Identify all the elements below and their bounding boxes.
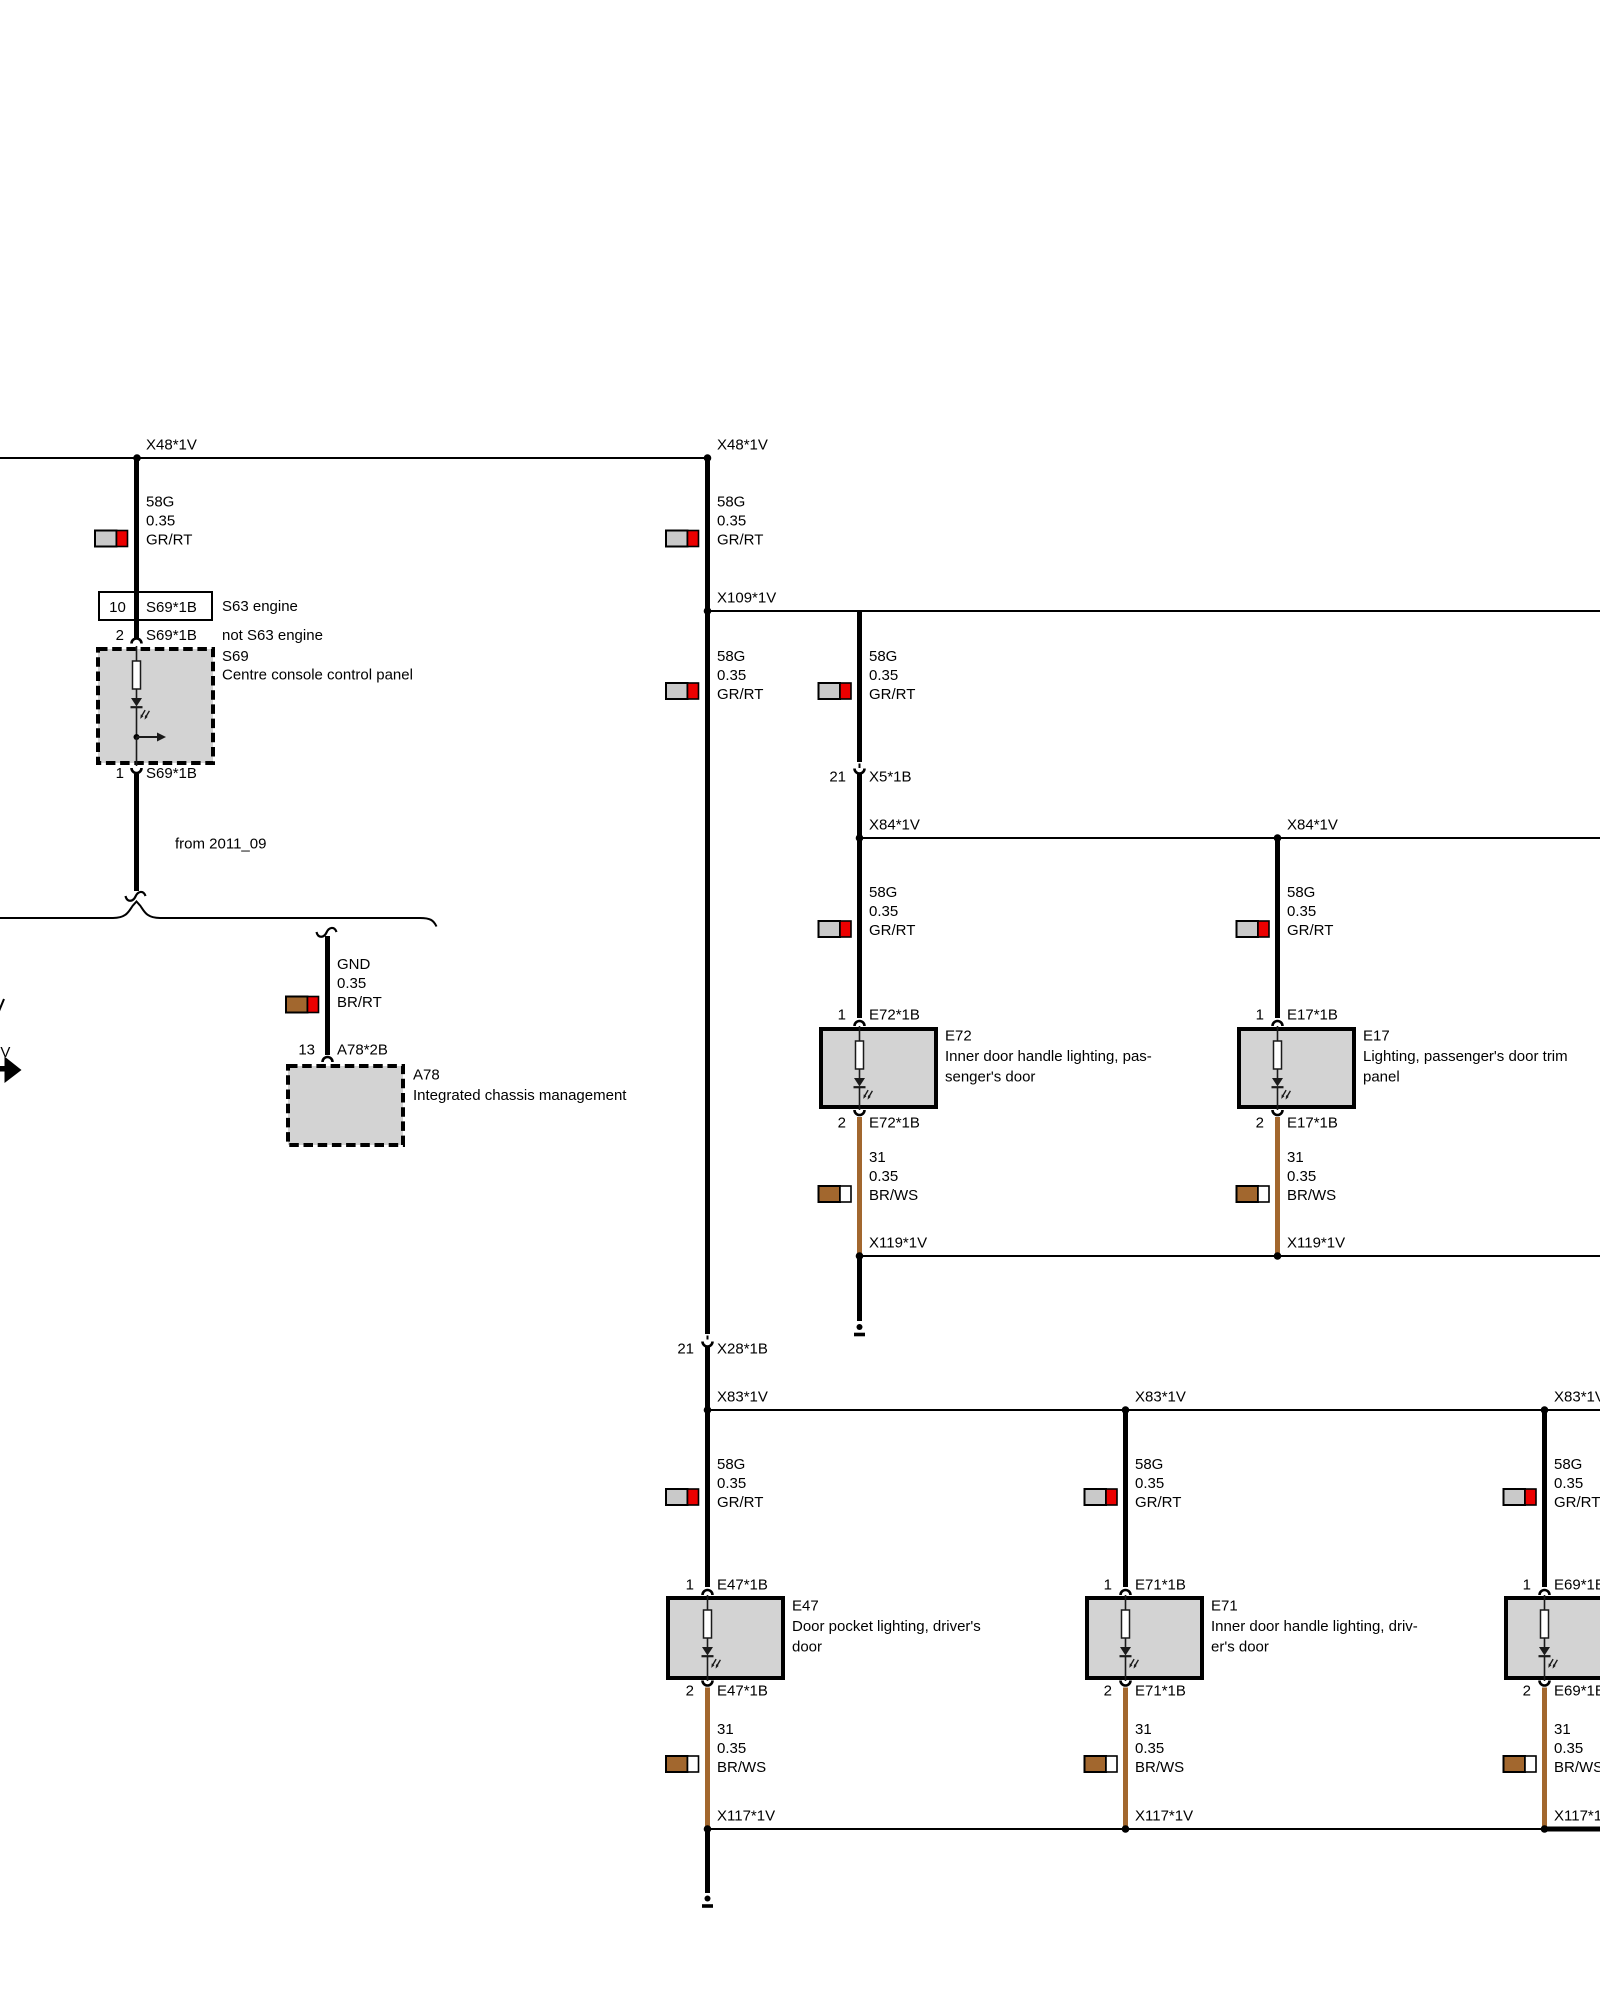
svg-text:Inner door handle lighting, dr: Inner door handle lighting, driv- xyxy=(1211,1618,1418,1635)
wire X119*1V bus xyxy=(860,1255,1600,1257)
pin 1 E69*1B label xyxy=(1523,1577,1600,1594)
wire label 31 0.35 BR/WS (E71) xyxy=(1135,1721,1184,1776)
pin 2 connector cup at E17 xyxy=(1273,1110,1283,1115)
lamp E47 box xyxy=(668,1598,783,1678)
pin 21 X28*1B label xyxy=(677,1341,768,1358)
svg-text:not S63 engine: not S63 engine xyxy=(222,627,323,644)
wire 58G GR/RT E17 branch xyxy=(1275,838,1280,1018)
wire label 58G 0.35 GR/RT (main bus) xyxy=(717,494,763,549)
svg-text:X117*1V: X117*1V xyxy=(1135,1808,1193,1825)
wire label 58G 0.35 GR/RT (E17 branch) xyxy=(1287,884,1333,939)
node X83*1V label (right) xyxy=(1554,1389,1600,1406)
colour swatch GR/RT (E17 branch) xyxy=(1237,921,1270,937)
wire 31 BR/WS from E69 xyxy=(1542,1688,1547,1828)
node X119*1V label (left) xyxy=(869,1235,927,1252)
svg-text:BR/WS: BR/WS xyxy=(1287,1187,1336,1204)
label not S63 engine xyxy=(222,627,323,644)
wire 58G GR/RT E71 branch xyxy=(1123,1410,1128,1587)
wire S69 pin1 down xyxy=(134,774,139,891)
wire stub below X117 xyxy=(705,1829,710,1893)
pin 1 S69*1B label xyxy=(116,765,197,782)
node X83*1V label (left) xyxy=(717,1389,768,1406)
svg-text:E47: E47 xyxy=(792,1598,819,1615)
label from 2011_09 xyxy=(175,836,266,853)
pin 2 S69*1B label xyxy=(116,627,197,644)
pin 1 E17*1B label xyxy=(1256,1007,1338,1024)
wire X84*1V bus xyxy=(860,837,1600,839)
svg-text:0.35: 0.35 xyxy=(869,1168,898,1185)
node X48*1V junction (left) xyxy=(133,454,141,462)
wire label 58G 0.35 GR/RT (E69 branch) xyxy=(1554,1456,1600,1511)
svg-text:2: 2 xyxy=(1256,1115,1264,1132)
svg-text:0.35: 0.35 xyxy=(717,1475,746,1492)
svg-text:GR/RT: GR/RT xyxy=(717,686,763,703)
colour swatch GR/RT (E47 branch) xyxy=(666,1489,699,1505)
node X119*1V junction (left) xyxy=(856,1252,864,1260)
pin 2 connector cup at E47 xyxy=(703,1681,713,1686)
svg-text:GR/RT: GR/RT xyxy=(1554,1494,1600,1511)
svg-text:31: 31 xyxy=(869,1149,886,1166)
wire label 31 0.35 BR/WS (E72) xyxy=(869,1149,918,1204)
wire label 31 0.35 BR/WS (E47) xyxy=(717,1721,766,1776)
lamp E69 box xyxy=(1506,1598,1600,1678)
pin 1 E71*1B label xyxy=(1104,1577,1186,1594)
svg-text:2: 2 xyxy=(838,1115,846,1132)
svg-text:E47*1B: E47*1B xyxy=(717,1683,768,1700)
svg-text:1: 1 xyxy=(838,1007,846,1024)
label A78 Integrated chassis management xyxy=(413,1067,627,1105)
control unit S69 box (dashed) xyxy=(98,649,213,763)
resistor and LED inside E72 xyxy=(854,1026,873,1110)
node junction inside S69 xyxy=(134,734,140,740)
svg-text:X83*1V: X83*1V xyxy=(1135,1389,1186,1406)
label S63 engine xyxy=(222,598,298,615)
clipped label 1V (left edge) xyxy=(0,1044,10,1061)
svg-text:10: 10 xyxy=(109,599,126,616)
svg-text:BR/WS: BR/WS xyxy=(1135,1759,1184,1776)
svg-text:Door pocket lighting, driver's: Door pocket lighting, driver's xyxy=(792,1618,981,1635)
svg-text:58G: 58G xyxy=(1554,1456,1582,1473)
node X117*1V label (right) xyxy=(1554,1808,1600,1825)
pin 1 E72*1B label xyxy=(838,1007,920,1024)
svg-text:1: 1 xyxy=(1523,1577,1531,1594)
node X117*1V label (middle) xyxy=(1135,1808,1193,1825)
svg-text:Integrated chassis management: Integrated chassis management xyxy=(413,1087,627,1104)
wire stub below X119 xyxy=(857,1256,862,1321)
svg-text:X109*1V: X109*1V xyxy=(717,590,776,607)
node X83*1V junction (middle) xyxy=(1122,1406,1130,1414)
svg-text:S69*1B: S69*1B xyxy=(146,765,197,782)
svg-text:0.35: 0.35 xyxy=(1287,1168,1316,1185)
pin 2 E72*1B label xyxy=(838,1115,920,1132)
svg-text:E71*1B: E71*1B xyxy=(1135,1577,1186,1594)
wire 58G GR/RT E69 branch xyxy=(1542,1410,1547,1587)
svg-text:2: 2 xyxy=(116,627,124,644)
off-page arrow (left edge) xyxy=(0,1057,22,1084)
pin 1 connector cap at E17 xyxy=(1273,1021,1283,1026)
svg-text:panel: panel xyxy=(1363,1069,1400,1086)
svg-text:X48*1V: X48*1V xyxy=(717,437,768,454)
svg-text:E72*1B: E72*1B xyxy=(869,1007,920,1024)
svg-text:0.35: 0.35 xyxy=(1554,1740,1583,1757)
svg-text:S69: S69 xyxy=(222,648,249,665)
svg-text:58G: 58G xyxy=(1287,884,1315,901)
node X48*1V label (right) xyxy=(717,437,768,454)
svg-text:GR/RT: GR/RT xyxy=(717,532,763,549)
wire label 31 0.35 BR/WS (E69) xyxy=(1554,1721,1600,1776)
pin 2 connector cup at E71 xyxy=(1121,1681,1131,1686)
pin 21 connector cup X5*1B xyxy=(855,769,865,774)
lamp E72 box xyxy=(821,1029,936,1107)
lamp E71 box xyxy=(1087,1598,1202,1678)
connector box 10 S69*1B (S63 engine variant) xyxy=(99,592,212,620)
svg-text:GR/RT: GR/RT xyxy=(717,1494,763,1511)
svg-text:0.35: 0.35 xyxy=(717,667,746,684)
wire label 58G 0.35 GR/RT (below X109 left) xyxy=(717,648,763,703)
connector 21 X28*1B break xyxy=(707,1336,709,1340)
colour swatch GR/RT (E69 branch) xyxy=(1504,1489,1537,1505)
wire 31 BR/WS from E71 xyxy=(1123,1688,1128,1828)
colour swatch GR/RT (X109 branch) xyxy=(819,683,852,699)
clipped label fragment (left edge) xyxy=(0,999,4,1011)
control unit A78 box (dashed) xyxy=(288,1066,403,1145)
svg-text:0.35: 0.35 xyxy=(717,513,746,530)
connector 21 X5*1B break xyxy=(859,764,861,769)
pin 1 connector cup at S69 xyxy=(132,768,142,773)
pin 2 connector cup at E69 xyxy=(1540,1681,1550,1686)
colour swatch GR/RT (main bus) xyxy=(666,531,699,547)
wire X109*1V bus xyxy=(707,610,1600,612)
svg-text:1: 1 xyxy=(1256,1007,1264,1024)
svg-text:1: 1 xyxy=(116,765,124,782)
svg-text:GR/RT: GR/RT xyxy=(869,922,915,939)
wire label 31 0.35 BR/WS (E17) xyxy=(1287,1149,1336,1204)
colour swatch GR/RT (S69 branch) xyxy=(95,531,128,547)
svg-text:X28*1B: X28*1B xyxy=(717,1341,768,1358)
svg-text:X5*1B: X5*1B xyxy=(869,769,912,786)
svg-text:E72*1B: E72*1B xyxy=(869,1115,920,1132)
node X117*1V junction (right) xyxy=(1541,1825,1549,1833)
wire break squiggle above GND wire xyxy=(317,928,337,937)
node X83*1V junction (right) xyxy=(1541,1406,1549,1414)
node X109*1V label (left) xyxy=(717,590,776,607)
svg-text:E47*1B: E47*1B xyxy=(717,1577,768,1594)
svg-text:1: 1 xyxy=(686,1577,694,1594)
svg-text:E72: E72 xyxy=(945,1028,972,1045)
colour swatch GR/RT (E72 branch) xyxy=(819,921,852,937)
svg-text:0.35: 0.35 xyxy=(717,1740,746,1757)
svg-text:0.35: 0.35 xyxy=(869,667,898,684)
wire X48*1V bus xyxy=(0,457,708,459)
resistor and LED inside E17 xyxy=(1272,1026,1291,1110)
svg-text:GR/RT: GR/RT xyxy=(1287,922,1333,939)
svg-text:X84*1V: X84*1V xyxy=(869,817,920,834)
node X84*1V junction (left) xyxy=(856,834,864,842)
signal arrow inside S69 xyxy=(137,733,167,767)
svg-text:58G: 58G xyxy=(717,494,745,511)
svg-text:2: 2 xyxy=(1104,1683,1112,1700)
cable harness brace xyxy=(0,902,437,927)
svg-text:X117*1V: X117*1V xyxy=(717,1808,775,1825)
node X48*1V junction (right) xyxy=(704,454,712,462)
label S69 Centre console control panel xyxy=(222,648,413,684)
colour swatch BR/WS (E72) xyxy=(819,1186,852,1202)
svg-text:21: 21 xyxy=(677,1341,694,1358)
wire end terminal below X119 xyxy=(854,1324,865,1335)
pin 2 connector cup at E72 xyxy=(855,1110,865,1115)
wire label 58G 0.35 GR/RT (E72 branch) xyxy=(869,884,915,939)
svg-text:E17: E17 xyxy=(1363,1028,1390,1045)
wire break squiggle below S69 xyxy=(126,892,146,901)
svg-text:31: 31 xyxy=(1287,1149,1304,1166)
svg-text:X119*1V: X119*1V xyxy=(869,1235,927,1252)
svg-text:X117*1V: X117*1V xyxy=(1554,1808,1600,1825)
wire label GND 0.35 BR/RT xyxy=(337,956,382,1011)
svg-text:BR/WS: BR/WS xyxy=(717,1759,766,1776)
wire 31 BR/WS from E17 xyxy=(1275,1117,1280,1254)
label E72 Inner door handle lighting passenger's door xyxy=(945,1028,1152,1086)
svg-text:0.35: 0.35 xyxy=(337,975,366,992)
svg-text:S69*1B: S69*1B xyxy=(146,599,197,616)
svg-text:2: 2 xyxy=(686,1683,694,1700)
svg-text:31: 31 xyxy=(1135,1721,1152,1738)
label E71 Inner door handle lighting driver's door xyxy=(1211,1598,1418,1656)
svg-text:58G: 58G xyxy=(869,884,897,901)
wire label 58G 0.35 GR/RT (X109 branch) xyxy=(869,648,915,703)
pin 1 E47*1B label xyxy=(686,1577,768,1594)
node X84*1V label (left) xyxy=(869,817,920,834)
svg-text:X84*1V: X84*1V xyxy=(1287,817,1338,834)
svg-text:31: 31 xyxy=(1554,1721,1571,1738)
wire 31 BR/WS from E72 xyxy=(857,1117,862,1254)
pin 13 connector cap at A78 xyxy=(323,1057,333,1062)
wire end terminal below X117 xyxy=(702,1896,713,1907)
wire label 58G 0.35 GR/RT (S69 branch) xyxy=(146,494,192,549)
colour swatch GR/RT (below X109 left) xyxy=(666,683,699,699)
pin 1 connector cap at E72 xyxy=(855,1021,865,1026)
wire below X5 connector xyxy=(857,774,862,1018)
pin 21 connector cup X28*1B xyxy=(703,1342,713,1347)
colour swatch BR/RT xyxy=(286,997,319,1013)
svg-text:Centre console control panel: Centre console control panel xyxy=(222,667,413,684)
wire 58G GR/RT to S69 xyxy=(134,458,139,639)
svg-text:GR/RT: GR/RT xyxy=(1135,1494,1181,1511)
svg-text:er's door: er's door xyxy=(1211,1639,1269,1656)
svg-text:X48*1V: X48*1V xyxy=(146,437,197,454)
svg-text:A78*2B: A78*2B xyxy=(337,1042,388,1059)
svg-text:31: 31 xyxy=(717,1721,734,1738)
node X117*1V junction (left) xyxy=(704,1825,712,1833)
wire X83*1V bus xyxy=(707,1409,1600,1411)
svg-text:Lighting, passenger's door tri: Lighting, passenger's door trim xyxy=(1363,1048,1568,1065)
svg-text:X83*1V: X83*1V xyxy=(717,1389,768,1406)
svg-text:BR/WS: BR/WS xyxy=(869,1187,918,1204)
wire below X28 connector xyxy=(705,1347,710,1587)
svg-text:E17*1B: E17*1B xyxy=(1287,1115,1338,1132)
node X84*1V junction (right) xyxy=(1274,834,1282,842)
svg-text:0.35: 0.35 xyxy=(1554,1475,1583,1492)
wire label 58G 0.35 GR/RT (E47 branch) xyxy=(717,1456,763,1511)
pin 1 connector cap at E71 xyxy=(1121,1590,1131,1595)
label E47 Door pocket lighting driver's door xyxy=(792,1598,981,1656)
svg-text:senger's door: senger's door xyxy=(945,1069,1035,1086)
node X119*1V label (right) xyxy=(1287,1235,1345,1252)
pin 21 X5*1B label xyxy=(829,769,911,786)
node X119*1V junction (right) xyxy=(1274,1252,1282,1260)
svg-text:X83*1V: X83*1V xyxy=(1554,1389,1600,1406)
svg-text:58G: 58G xyxy=(717,648,745,665)
svg-text:0.35: 0.35 xyxy=(146,513,175,530)
pin 1 connector cap at E69 xyxy=(1540,1590,1550,1595)
pin 2 E17*1B label xyxy=(1256,1115,1338,1132)
node X48*1V label (left) xyxy=(146,437,197,454)
svg-text:0.35: 0.35 xyxy=(1287,903,1316,920)
node X117*1V label (left) xyxy=(717,1808,775,1825)
pin 2 E47*1B label xyxy=(686,1683,768,1700)
wire label 58G 0.35 GR/RT (E71 branch) xyxy=(1135,1456,1181,1511)
colour swatch GR/RT (E71 branch) xyxy=(1085,1489,1118,1505)
svg-text:GND: GND xyxy=(337,956,371,973)
svg-text:58G: 58G xyxy=(717,1456,745,1473)
svg-text:Inner door handle lighting, pa: Inner door handle lighting, pas- xyxy=(945,1048,1152,1065)
lamp E17 box xyxy=(1239,1029,1354,1107)
pin 2 E71*1B label xyxy=(1104,1683,1186,1700)
node X109*1V junction (left) xyxy=(704,607,712,615)
svg-text:E71*1B: E71*1B xyxy=(1135,1683,1186,1700)
node X117*1V junction (middle) xyxy=(1122,1825,1130,1833)
svg-text:S63 engine: S63 engine xyxy=(222,598,298,615)
colour swatch BR/WS (E47) xyxy=(666,1756,699,1772)
wire GND BR/RT xyxy=(325,936,330,1055)
svg-text:S69*1B: S69*1B xyxy=(146,627,197,644)
svg-text:1: 1 xyxy=(1104,1577,1112,1594)
svg-text:0.35: 0.35 xyxy=(869,903,898,920)
svg-text:58G: 58G xyxy=(869,648,897,665)
svg-text:BR/WS: BR/WS xyxy=(1554,1759,1600,1776)
svg-text:21: 21 xyxy=(829,769,846,786)
colour swatch BR/WS (E69) xyxy=(1504,1756,1537,1772)
resistor and LED inside E47 xyxy=(702,1595,721,1681)
svg-text:0.35: 0.35 xyxy=(1135,1740,1164,1757)
svg-text:58G: 58G xyxy=(146,494,174,511)
svg-text:door: door xyxy=(792,1639,822,1656)
svg-text:GR/RT: GR/RT xyxy=(146,532,192,549)
pin 1 connector cap at E47 xyxy=(703,1590,713,1595)
svg-text:58G: 58G xyxy=(1135,1456,1163,1473)
resistor and LED inside E69 xyxy=(1539,1595,1558,1681)
pin 2 E69*1B label xyxy=(1523,1683,1600,1700)
svg-text:A78: A78 xyxy=(413,1067,440,1084)
svg-text:GR/RT: GR/RT xyxy=(869,686,915,703)
svg-text:2: 2 xyxy=(1523,1683,1531,1700)
colour swatch BR/WS (E17) xyxy=(1237,1186,1270,1202)
resistor and LED inside S69 xyxy=(131,646,150,738)
svg-text:from 2011_09: from 2011_09 xyxy=(175,836,266,853)
svg-text:E17*1B: E17*1B xyxy=(1287,1007,1338,1024)
colour swatch BR/WS (E71) xyxy=(1085,1756,1118,1772)
svg-text:E69*1B: E69*1B xyxy=(1554,1577,1600,1594)
svg-text:X119*1V: X119*1V xyxy=(1287,1235,1345,1252)
svg-text:13: 13 xyxy=(298,1042,315,1059)
resistor and LED inside E71 xyxy=(1120,1595,1139,1681)
wire X117*1V bus thick segment xyxy=(1546,1827,1600,1832)
wire 58G GR/RT X109 branch xyxy=(857,611,862,762)
node X83*1V label (middle) xyxy=(1135,1389,1186,1406)
wire 31 BR/WS from E47 xyxy=(705,1688,710,1828)
label E17 Lighting passenger's door trim panel xyxy=(1363,1028,1568,1086)
wire 58G GR/RT main bus xyxy=(705,458,710,1334)
svg-text:BR/RT: BR/RT xyxy=(337,994,382,1011)
pin 13 A78*2B label xyxy=(298,1042,388,1059)
node X84*1V label (right) xyxy=(1287,817,1338,834)
wire X117*1V bus xyxy=(707,1828,1546,1830)
svg-text:E71: E71 xyxy=(1211,1598,1238,1615)
pin 2 connector cap at S69 xyxy=(132,639,142,644)
node X83*1V junction (left) xyxy=(704,1406,712,1414)
svg-text:E69*1B: E69*1B xyxy=(1554,1683,1600,1700)
svg-text:0.35: 0.35 xyxy=(1135,1475,1164,1492)
